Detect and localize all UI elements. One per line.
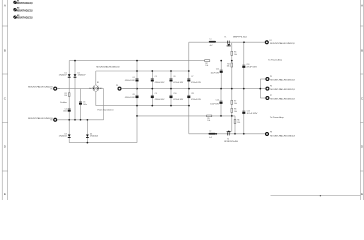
svg-text:IRF9540: IRF9540 (224, 141, 238, 143)
svg-text:4700uF 63V: 4700uF 63V (155, 82, 166, 84)
svg-text:MOUNT-PAD-ROUND2,8: MOUNT-PAD-ROUND2,8 (270, 97, 295, 100)
svg-text:E: E (361, 192, 363, 196)
svg-text:MOUNT-HOLE2,8: MOUNT-HOLE2,8 (17, 2, 33, 5)
title block top edge (271, 195, 361, 196)
svg-text:C9: C9 (155, 93, 157, 95)
wire junction dots (68, 41, 261, 143)
svg-text:From Transformer: From Transformer (98, 108, 114, 111)
svg-text:B: B (361, 48, 363, 52)
wire D2 column (74, 61, 76, 89)
diode D1 1N4007 (59, 72, 71, 77)
wire AC2 from pad P2 (57, 119, 103, 121)
capacitor C12 10uF 63V (211, 68, 223, 74)
svg-text:10k: 10k (227, 66, 230, 68)
svg-text:10k: 10k (234, 111, 237, 113)
pad P3 MOUNT-PAD-ROUND2.8 (96, 66, 137, 91)
capacitor C13 47uF 63V (242, 64, 258, 69)
svg-text:To Power Amp: To Power Amp (268, 58, 283, 61)
pad P5 MOUNT-PAD-ROUND2.8 (0V output) (265, 76, 295, 81)
wire bridge + stub (95, 71, 97, 85)
svg-text:10k: 10k (205, 65, 208, 67)
capacitor C15 47uF 63V (242, 110, 258, 115)
capacitor C9 4700uF 63V (bottom row) (151, 93, 165, 101)
svg-text:10k: 10k (234, 54, 237, 56)
svg-text:4700uF 63V: 4700uF 63V (191, 99, 202, 101)
svg-text:4700uF 63V: 4700uF 63V (191, 82, 202, 84)
wire D1 column (68, 61, 70, 89)
capacitor C2 100n snubber (63, 108, 71, 112)
svg-text:4700uF 63V: 4700uF 63V (155, 99, 166, 101)
wire gate divider column lower (231, 89, 233, 132)
svg-text:1N4004: 1N4004 (90, 136, 98, 138)
mount hole H1 (13, 0, 33, 5)
wire fan stubs to pads P5 P6 P7 (260, 79, 265, 98)
pad P6 MOUNT-PAD-ROUND2.8 (0V output) (265, 86, 295, 91)
wire AC1 from pad P1 to bridge (57, 88, 92, 90)
wire snubber column R1-C2 (68, 89, 70, 120)
capacitor C4 4700uF 63V (top row) (125, 77, 139, 82)
svg-text:1N4004: 1N4004 (59, 136, 67, 138)
wire C15 column (243, 89, 245, 134)
resistor R3 10k (231, 51, 237, 56)
svg-text:4700uF 63V: 4700uF 63V (173, 99, 184, 101)
diode D2 1N4007 (74, 72, 86, 77)
svg-text:MOUNT-PAD-ROUND2,8: MOUNT-PAD-ROUND2,8 (270, 135, 295, 138)
mount hole H3 (13, 15, 33, 20)
capacitor C7 4700uF 63V (top row) (187, 76, 201, 84)
transistor T2 IRF9540 (224, 130, 238, 142)
wire cap column 1 (136, 61, 138, 143)
svg-text:MOUNT-PAD-ROUND2,8: MOUNT-PAD-ROUND2,8 (270, 78, 295, 81)
wire R6 column (234, 116, 236, 134)
wire cap column 2 (151, 71, 153, 106)
svg-text:P3: P3 (116, 85, 118, 87)
capacitor C3 100n (79, 101, 87, 105)
svg-text:C14: C14 (216, 99, 219, 101)
svg-text:E: E (4, 192, 6, 196)
svg-text:P5: P5 (270, 76, 272, 78)
svg-text:150: 150 (237, 122, 240, 124)
wire mid rail 0V (123, 88, 261, 90)
svg-text:47uF 63V: 47uF 63V (247, 113, 259, 115)
svg-text:C6: C6 (173, 76, 175, 78)
svg-text:47uF 63V: 47uF 63V (246, 66, 258, 68)
svg-text:C12: C12 (216, 68, 219, 70)
svg-text:MOUNT-PAD-ROUND2,8: MOUNT-PAD-ROUND2,8 (270, 42, 295, 45)
svg-text:P6: P6 (270, 86, 272, 88)
pad P2 MOUNT-PAD-ROUND2.8 (AC input 2) (28, 117, 57, 122)
svg-text:10k: 10k (207, 120, 210, 122)
wire C12 column (220, 61, 222, 89)
svg-text:MOUNT-HOLE2,8: MOUNT-HOLE2,8 (17, 9, 33, 12)
svg-text:T1: T1 (224, 36, 226, 38)
capacitor C6 4700uF 63V (top row) (170, 76, 184, 84)
svg-text:B1: B1 (97, 82, 99, 84)
wire snubber column C3 (80, 89, 82, 120)
svg-text:4u7: 4u7 (210, 45, 213, 47)
diode D4 1N4004 (86, 133, 98, 137)
svg-text:1N4007: 1N4007 (59, 75, 67, 77)
pad P8 MOUNT-PAD-ROUND2.8 (V- output) (265, 132, 296, 138)
capacitor C5 4700uF 63V (top row) (151, 76, 165, 84)
svg-text:MOUNT-PAD-ROUND2,8: MOUNT-PAD-ROUND2,8 (270, 88, 295, 91)
svg-text:B: B (4, 48, 6, 52)
capacitor C11 4700uF 63V (bottom row) (187, 93, 201, 101)
frame row letters A-E (4, 4, 364, 196)
wire bridge AC2 drop (100, 89, 104, 120)
resistor R7 10k (231, 100, 237, 105)
resistor R4 10k (227, 63, 233, 68)
resistor R6 150 (234, 119, 240, 124)
pad P1 MOUNT-PAD-ROUND2.8 (AC input 1) (28, 86, 60, 91)
svg-text:P7: P7 (270, 95, 272, 97)
mount hole H2 (13, 8, 33, 13)
svg-text:MOUNT-HOLE2,8: MOUNT-HOLE2,8 (17, 17, 33, 20)
wire cap column 3 (170, 71, 172, 106)
svg-text:C5: C5 (155, 76, 157, 78)
svg-text:L1: L1 (210, 39, 212, 41)
transistor T1 IRFP150 (224, 36, 246, 46)
wire lower regulator riser (188, 106, 190, 134)
wire snubber column mid (74, 89, 76, 120)
wire regulator input drop (188, 42, 190, 71)
svg-text:100n: 100n (83, 104, 87, 106)
svg-text:1N4007: 1N4007 (78, 75, 86, 77)
drawing frame left ruler band (2, 0, 8, 200)
wire C13 column (243, 42, 245, 88)
svg-text:P2: P2 (50, 120, 52, 122)
diode D3 1N4004 (59, 133, 71, 137)
drawing frame right ruler band (360, 0, 363, 200)
resistor R1 1M snubber (64, 93, 70, 97)
wire bridge - stub (95, 92, 97, 106)
text Snubber (60, 101, 67, 104)
svg-text:C8: C8 (132, 94, 134, 96)
wire gate divider column upper (231, 45, 233, 88)
wire cap column 4 (188, 71, 190, 106)
svg-text:4700uF 63V: 4700uF 63V (125, 80, 136, 82)
wire regulator top row (189, 41, 265, 43)
resistor R5 (207, 115, 212, 122)
svg-text:P4: P4 (270, 40, 272, 42)
svg-text:4700uF 63V: 4700uF 63V (125, 97, 136, 99)
wire rail bridge+ to capacitor bank top (96, 70, 189, 72)
svg-text:10uF 63V: 10uF 63V (211, 72, 220, 74)
bridge rectifier B1 (89, 82, 103, 92)
svg-text:To Power Amp: To Power Amp (270, 116, 285, 119)
wire D4 column (86, 120, 88, 143)
svg-text:100n: 100n (63, 111, 67, 113)
inductor L2 4u7 (209, 131, 216, 139)
wire bottom return (69, 142, 137, 144)
text From Transformer (98, 108, 114, 111)
text To Power Amp (upper) (268, 58, 283, 61)
svg-text:C7: C7 (191, 76, 193, 78)
inductor L1 4u7 (209, 39, 216, 47)
svg-text:10k: 10k (234, 103, 237, 105)
svg-text:P8: P8 (270, 132, 272, 134)
wire D3 column (68, 120, 70, 143)
text To Power Amp (lower) (270, 116, 285, 119)
wire capacitor bank bottom rail (96, 105, 189, 107)
svg-text:C4: C4 (132, 77, 134, 79)
frame row tick marks (2, 26, 363, 171)
svg-text:4u7: 4u7 (209, 137, 212, 139)
wire output fan vertical (259, 79, 261, 98)
svg-text:C11: C11 (191, 93, 194, 95)
resistor R2 (205, 60, 210, 67)
capacitor C8 4700uF 63V (bottom row) (125, 94, 139, 99)
svg-text:MOUNT-PAD-ROUND2,8: MOUNT-PAD-ROUND2,8 (96, 66, 120, 69)
svg-text:C10: C10 (173, 93, 176, 95)
pad P4 MOUNT-PAD-ROUND2.8 (V+ output) (265, 40, 296, 45)
svg-text:10uF 63V: 10uF 63V (210, 103, 219, 105)
capacitor C10 4700uF 63V (bottom row) (170, 93, 184, 101)
svg-text:P1: P1 (50, 88, 52, 90)
resistor R8 10k (231, 108, 237, 113)
svg-text:IRFP150: IRFP150 (233, 36, 247, 38)
capacitor C14 10uF 63V (210, 99, 222, 105)
svg-text:L2: L2 (209, 131, 211, 133)
wire top rail (node VRAW+ feed) (69, 60, 204, 62)
wire lower regulator row (189, 133, 265, 135)
pad P7 MOUNT-PAD-ROUND2.8 (0V output) (265, 95, 295, 100)
svg-text:4700uF 63V: 4700uF 63V (173, 82, 184, 84)
wire C14 column (220, 89, 222, 116)
svg-text:Snubber: Snubber (60, 101, 67, 104)
wire lower distribution rail (137, 115, 235, 117)
